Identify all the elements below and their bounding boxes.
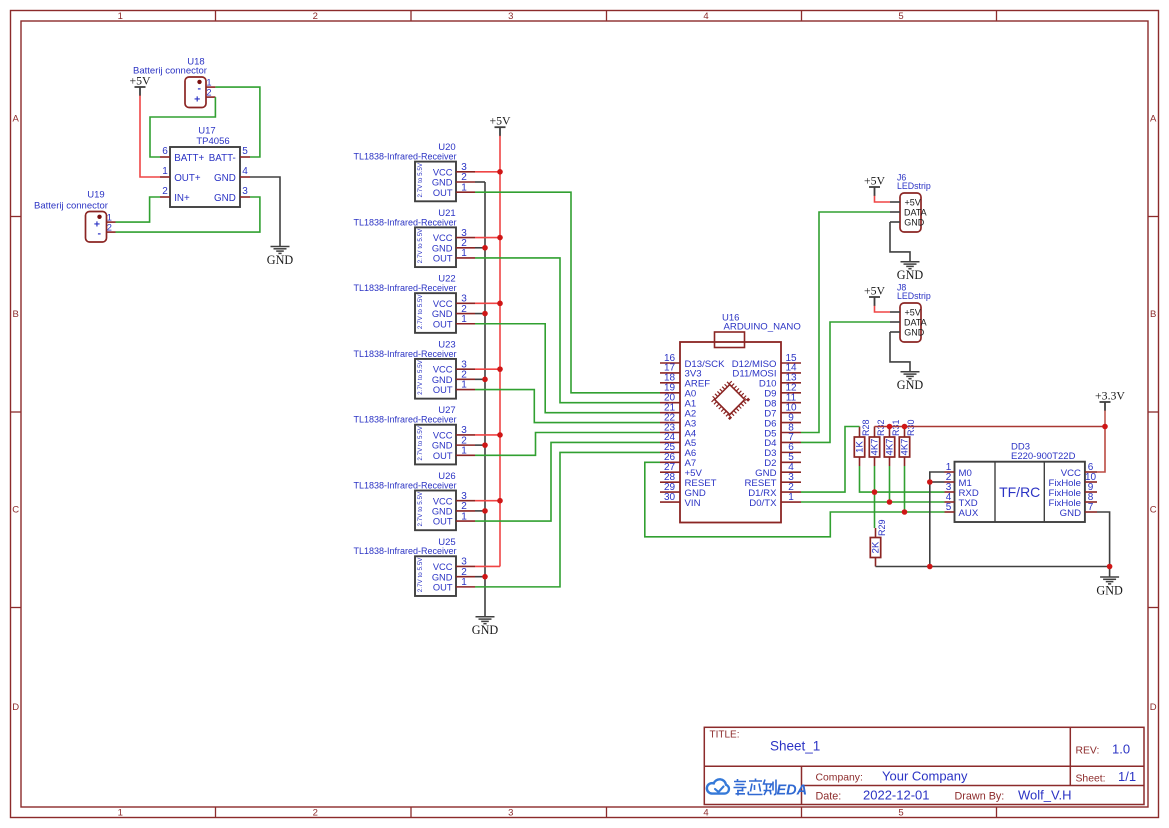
U26 pin 1 OUT: [456, 520, 475, 522]
svg-text:B: B: [13, 309, 19, 320]
svg-text:4K7: 4K7: [885, 439, 896, 456]
svg-text:5: 5: [898, 808, 903, 819]
svg-text:OUT: OUT: [433, 188, 453, 198]
wire DD3 M0/M1 to GND bus: [930, 472, 945, 567]
wire U18 pin1 to U17 BATT-: [215, 87, 260, 157]
U25 pin 1 OUT: [456, 586, 475, 588]
svg-text:Batterij connector: Batterij connector: [34, 201, 108, 212]
U16 pin 29 GND: [660, 491, 680, 493]
wire U22 GND to GND bus: [475, 313, 485, 315]
svg-text:GND: GND: [432, 243, 453, 253]
DD3 pin 2 M1: [945, 481, 955, 483]
wire +5V to J8: [875, 306, 891, 312]
svg-text:1: 1: [118, 808, 123, 819]
U16 pin 7 D4: [781, 441, 801, 443]
junction +5V bus: [497, 366, 503, 372]
U20 pin 3 VCC: [456, 171, 475, 173]
junction +5V bus: [497, 301, 503, 307]
U16 pin 9 D6: [781, 422, 801, 424]
svg-text:U17: U17: [198, 126, 215, 137]
wire U21 VCC to +5V bus: [475, 237, 500, 239]
svg-text:+: +: [194, 93, 200, 105]
svg-text:REV:: REV:: [1076, 746, 1100, 757]
logo JLC EDA: [707, 779, 729, 793]
junction GND bus: [927, 564, 933, 570]
wire GND bus (right): [876, 566, 1110, 568]
IR receiver U27: [415, 425, 456, 465]
U22 pin 3 VCC: [456, 302, 475, 304]
wire U19 pin2 to U17 GND3: [116, 197, 260, 232]
U16 pin 8 D5: [781, 432, 801, 434]
svg-text:ARDUINO_NANO: ARDUINO_NANO: [724, 322, 801, 333]
svg-text:GND: GND: [1096, 583, 1123, 597]
svg-text:LEDstrip: LEDstrip: [897, 181, 931, 191]
svg-text:TL1838-Infrared-Receiver: TL1838-Infrared-Receiver: [353, 152, 456, 162]
svg-text:1: 1: [461, 446, 467, 457]
wire U27 GND to GND bus: [475, 444, 485, 446]
junction +5V bus: [497, 169, 503, 175]
svg-text:3: 3: [508, 808, 513, 819]
resistor R28 1K: [859, 427, 861, 438]
wire U26 OUT to U16: [475, 442, 660, 521]
wire +3.3V bus: [875, 426, 1106, 428]
wire U23 GND to GND bus: [475, 378, 485, 380]
DD3 pin 6 VCC: [1085, 471, 1097, 473]
svg-text:R32: R32: [876, 419, 886, 436]
U27 pin 3 VCC: [456, 434, 475, 436]
svg-text:2: 2: [313, 808, 318, 819]
wire U23 OUT to U16: [475, 390, 660, 423]
U16 pin 13 D10: [781, 382, 801, 384]
U21 pin 2 GND: [456, 247, 475, 249]
wire J6 DATA to U16 D5: [801, 212, 890, 433]
U16 pin 18 AREF: [660, 382, 680, 384]
svg-text:BATT+: BATT+: [174, 153, 204, 164]
DD3 pin 8 FixHole: [1085, 501, 1097, 503]
svg-text:4K7: 4K7: [870, 439, 881, 456]
junction RXD: [872, 489, 878, 495]
U16 pin 21 A2: [660, 412, 680, 414]
IR receiver U23: [415, 359, 456, 399]
U19 pin 2: [107, 231, 116, 233]
svg-text:GND: GND: [904, 328, 925, 338]
svg-text:2.7V to 5.5V: 2.7V to 5.5V: [417, 359, 424, 394]
svg-text:A: A: [13, 114, 20, 125]
svg-text:Sheet_1: Sheet_1: [770, 739, 820, 754]
svg-text:+5V: +5V: [864, 284, 886, 298]
svg-text:OUT: OUT: [433, 319, 453, 329]
svg-text:TP4056: TP4056: [196, 136, 229, 147]
svg-text:GND: GND: [214, 173, 236, 184]
svg-text:TL1838-Infrared-Receiver: TL1838-Infrared-Receiver: [353, 217, 456, 227]
ground (J8): [901, 371, 920, 373]
U22 pin 1 OUT: [456, 323, 475, 325]
svg-text:2.7V to 5.5V: 2.7V to 5.5V: [417, 425, 424, 460]
svg-text:TL1838-Infrared-Receiver: TL1838-Infrared-Receiver: [353, 283, 456, 293]
wire U20 VCC to +5V bus: [475, 171, 500, 173]
DD3 pin 9 FixHole: [1085, 491, 1097, 493]
svg-text:6: 6: [162, 146, 168, 157]
svg-text:OUT: OUT: [433, 254, 453, 264]
svg-text:3: 3: [508, 11, 513, 22]
DD3 pin 4 TXD: [945, 501, 955, 503]
wire U26 GND to GND bus: [475, 510, 485, 512]
svg-text:DATA: DATA: [904, 318, 927, 328]
IR receiver U26: [415, 491, 456, 531]
svg-text:GND: GND: [432, 572, 453, 582]
U16 pin 27 +5V: [660, 471, 680, 473]
wire +5V to J6: [875, 196, 891, 202]
svg-text:2.7V to 5.5V: 2.7V to 5.5V: [417, 162, 424, 197]
svg-text:DATA: DATA: [904, 208, 927, 218]
U17 pin 6 BATT+: [160, 156, 170, 158]
svg-text:1: 1: [461, 577, 467, 588]
svg-text:5: 5: [242, 146, 248, 157]
svg-text:TL1838-Infrared-Receiver: TL1838-Infrared-Receiver: [353, 415, 456, 425]
svg-text:1: 1: [461, 380, 467, 391]
svg-text:1.0: 1.0: [1112, 742, 1130, 757]
svg-text:C: C: [12, 505, 19, 516]
svg-text:+5V: +5V: [864, 174, 886, 188]
svg-text:OUT: OUT: [433, 385, 453, 395]
svg-text:OUT: OUT: [433, 451, 453, 461]
svg-text:GND: GND: [432, 375, 453, 385]
U23 pin 3 VCC: [456, 368, 475, 370]
svg-text:2: 2: [107, 222, 112, 232]
DD3 pin 10 FixHole: [1085, 481, 1097, 483]
J8 pin +5V: [890, 311, 900, 313]
DD3 pin 7 GND: [1085, 511, 1097, 513]
svg-text:Your Company: Your Company: [882, 768, 968, 783]
U23 pin 1 OUT: [456, 389, 475, 391]
U16 pin 23 A4: [660, 432, 680, 434]
U16 pin 26 A7: [660, 461, 680, 463]
wire U16 D0/TX to DD3 TXD: [801, 501, 945, 503]
IR receiver U21: [415, 227, 456, 267]
svg-text:OUT+: OUT+: [174, 173, 201, 184]
junction GND bus: [482, 574, 488, 580]
U16 pin 10 D7: [781, 412, 801, 414]
svg-text:VIN: VIN: [685, 498, 701, 509]
wire R31 bottom to TXD net: [889, 466, 891, 502]
wire U25 VCC to +5V bus: [475, 565, 500, 567]
U17 pin 3 GND: [240, 196, 250, 198]
module DD3 E220-900T22D: [955, 462, 1085, 522]
resistor R29 2K: [875, 528, 877, 538]
wire U23 VCC to +5V bus: [475, 368, 500, 370]
junction +3.3V: [1102, 424, 1108, 430]
svg-text:2: 2: [313, 11, 318, 22]
svg-text:VCC: VCC: [433, 496, 453, 506]
svg-text:+5V: +5V: [905, 308, 921, 318]
wire U22 VCC to +5V bus: [475, 302, 500, 304]
svg-text:GND: GND: [432, 441, 453, 451]
U21 pin 3 VCC: [456, 237, 475, 239]
svg-text:2022-12-01: 2022-12-01: [863, 787, 930, 802]
wire U21 OUT to U16: [475, 258, 660, 403]
wire +5V bus: [499, 136, 501, 567]
U16 pin 15 D12/MISO: [781, 362, 801, 364]
svg-text:R28: R28: [861, 419, 871, 436]
wire RXD net: [860, 466, 945, 492]
connector J8 LEDstrip: [900, 303, 921, 342]
wire DD3 GND7 to ground: [1097, 512, 1110, 577]
wire U16 A7 to DD3 AUX: [645, 462, 945, 537]
wire +5V to U17 OUT+: [140, 96, 160, 178]
resistor R31 4K7: [889, 427, 891, 438]
svg-text:R29: R29: [877, 519, 887, 536]
wire GND bus (receivers): [484, 182, 486, 617]
svg-text:2.7V to 5.5V: 2.7V to 5.5V: [417, 228, 424, 263]
svg-text:TL1838-Infrared-Receiver: TL1838-Infrared-Receiver: [353, 546, 456, 556]
junction GND bus: [482, 442, 488, 448]
junction GND bus: [482, 311, 488, 317]
U25 pin 3 VCC: [456, 565, 475, 567]
IR receiver U22: [415, 293, 456, 333]
svg-text:30: 30: [664, 492, 676, 503]
svg-text:2.7V to 5.5V: 2.7V to 5.5V: [417, 491, 424, 526]
svg-text:5: 5: [898, 11, 903, 22]
svg-text:VCC: VCC: [433, 562, 453, 572]
svg-text:U19: U19: [87, 190, 104, 201]
U16 pin 2 D1/RX: [781, 491, 801, 493]
U26 pin 2 GND: [456, 510, 475, 512]
wire U17 GND4 to ground: [250, 177, 280, 247]
svg-text:BATT-: BATT-: [209, 153, 236, 164]
wire R32 bottom to RXD net: [874, 466, 876, 492]
junction GND right: [1107, 564, 1113, 570]
U17 pin 2 IN+: [160, 196, 170, 198]
junction +5V bus: [497, 235, 503, 241]
J8 pin GND: [890, 331, 900, 333]
U18 pin 2: [206, 96, 215, 98]
svg-text:VCC: VCC: [433, 167, 453, 177]
IC U17 TP4056: [170, 147, 240, 207]
wire U21 GND to GND bus: [475, 247, 485, 249]
svg-text:1: 1: [206, 78, 211, 88]
connector J6 LEDstrip: [900, 193, 921, 232]
U16 pin 1 D0/TX: [781, 501, 801, 503]
svg-text:IN+: IN+: [174, 193, 190, 204]
svg-text:1/1: 1/1: [1118, 769, 1136, 784]
svg-text:Company:: Company:: [816, 773, 863, 784]
U16 pin 20 A1: [660, 402, 680, 404]
svg-text:2.7V to 5.5V: 2.7V to 5.5V: [417, 294, 424, 329]
J6 pin +5V: [890, 201, 900, 203]
wire U19 pin1 to U17 IN+: [116, 197, 161, 222]
U27 pin 2 GND: [456, 444, 475, 446]
svg-text:2: 2: [162, 186, 168, 197]
svg-text:Date:: Date:: [816, 791, 842, 803]
ground (receivers): [476, 616, 495, 618]
U20 pin 2 GND: [456, 181, 475, 183]
svg-text:4: 4: [703, 11, 708, 22]
connector U19: [86, 212, 107, 243]
svg-text:TITLE:: TITLE:: [710, 730, 740, 741]
svg-text:R31: R31: [891, 419, 901, 436]
U16 pin 22 A3: [660, 422, 680, 424]
U26 pin 3 VCC: [456, 500, 475, 502]
U16 pin 28 RESET: [660, 481, 680, 483]
IR receiver U25: [415, 556, 456, 596]
svg-text:Batterij connector: Batterij connector: [133, 66, 207, 77]
J6 pin DATA: [890, 211, 900, 213]
wire U27 OUT to U16: [475, 433, 660, 456]
U21 pin 1 OUT: [456, 257, 475, 259]
wire R29 top to RXD net: [874, 492, 876, 528]
svg-text:D0/TX: D0/TX: [749, 498, 777, 509]
svg-text:4: 4: [703, 808, 708, 819]
svg-text:R30: R30: [906, 419, 916, 436]
svg-text:+3.3V: +3.3V: [1095, 389, 1125, 403]
svg-text:+5V: +5V: [905, 198, 921, 208]
svg-text:+5V: +5V: [489, 114, 511, 128]
svg-text:D: D: [12, 702, 19, 713]
svg-text:1: 1: [461, 314, 467, 325]
svg-text:3: 3: [242, 186, 248, 197]
svg-text:B: B: [1150, 309, 1156, 320]
junction R31 top: [887, 424, 893, 430]
U23 pin 2 GND: [456, 378, 475, 380]
wire U27 VCC to +5V bus: [475, 434, 500, 436]
svg-text:A: A: [1150, 114, 1157, 125]
resistor R30 4K7: [904, 427, 906, 438]
U16 pin 4 GND: [781, 471, 801, 473]
wire U26 VCC to +5V bus: [475, 500, 500, 502]
ground (U17): [271, 246, 290, 248]
wire U25 OUT to U16: [475, 452, 660, 586]
junction R30 top: [902, 424, 908, 430]
svg-text:D: D: [1150, 702, 1157, 713]
svg-text:1: 1: [788, 492, 794, 503]
junction GND bus: [482, 245, 488, 251]
wire J6 GND to ground: [890, 222, 910, 262]
svg-text:7: 7: [1088, 502, 1094, 513]
ground (J6): [901, 261, 920, 263]
IC U16 ARDUINO_NANO: [680, 342, 781, 523]
DD3 pin 1 M0: [945, 471, 955, 473]
svg-text:GND: GND: [897, 378, 924, 392]
U16 pin 11 D8: [781, 402, 801, 404]
svg-text:Wolf_V.H: Wolf_V.H: [1018, 787, 1071, 802]
U16 pin 30 VIN: [660, 501, 680, 503]
svg-text:OUT: OUT: [433, 582, 453, 592]
svg-text:5: 5: [946, 502, 952, 513]
wire U20 GND to GND bus: [475, 181, 485, 183]
junction TXD: [887, 499, 893, 505]
junction GND bus: [482, 508, 488, 514]
svg-text:GND: GND: [472, 623, 499, 637]
wire U20 OUT to U16: [475, 192, 660, 393]
U25 pin 2 GND: [456, 576, 475, 578]
svg-text:GND: GND: [432, 309, 453, 319]
svg-text:4K7: 4K7: [900, 439, 911, 456]
svg-text:Drawn By:: Drawn By:: [955, 791, 1005, 803]
svg-text:-: -: [97, 227, 101, 239]
U22 pin 2 GND: [456, 313, 475, 315]
U20 pin 1 OUT: [456, 191, 475, 193]
resistor R32 4K7: [874, 427, 876, 438]
DD3 pin 5 AUX: [945, 511, 955, 513]
U17 pin 4 GND: [240, 176, 250, 178]
wire U16 D1/RX to R28 top: [801, 427, 860, 493]
U16 pin 25 A6: [660, 451, 680, 453]
U16 pin 6 D3: [781, 451, 801, 453]
U16 pin 19 A0: [660, 392, 680, 394]
svg-text:OUT: OUT: [433, 517, 453, 527]
wire J8 DATA to U16 D4: [801, 322, 890, 442]
svg-text:TL1838-Infrared-Receiver: TL1838-Infrared-Receiver: [353, 480, 456, 490]
title block: [704, 727, 1144, 804]
U16 pin 17 3V3: [660, 372, 680, 374]
wire U18 pin2 to U17 BATT+: [150, 97, 215, 157]
junction +5V bus: [497, 498, 503, 504]
wire U25 GND to GND bus: [475, 576, 485, 578]
svg-text:C: C: [1150, 505, 1157, 516]
IR receiver U20: [415, 162, 456, 202]
U16 pin 24 A5: [660, 441, 680, 443]
svg-text:2: 2: [206, 87, 211, 97]
svg-text:GND: GND: [897, 268, 924, 282]
wire R30 bottom to AUX net: [904, 466, 906, 512]
U27 pin 1 OUT: [456, 454, 475, 456]
svg-text:VCC: VCC: [433, 233, 453, 243]
U16 pin 16 D13/SCK: [660, 362, 680, 364]
U19 pin 1: [107, 221, 116, 223]
svg-text:1: 1: [118, 11, 123, 22]
U16 pin 3 RESET: [781, 481, 801, 483]
U16 pin 14 D11/MOSI: [781, 372, 801, 374]
svg-text:1K: 1K: [855, 441, 866, 453]
svg-text:E220-900T22D: E220-900T22D: [1011, 451, 1076, 462]
svg-text:2K: 2K: [871, 541, 882, 553]
svg-text:LEDstrip: LEDstrip: [897, 291, 931, 301]
svg-text:Sheet:: Sheet:: [1076, 774, 1106, 785]
wire +3.3V to DD3 VCC: [1097, 427, 1105, 473]
svg-text:TL1838-Infrared-Receiver: TL1838-Infrared-Receiver: [353, 349, 456, 359]
svg-text:GND: GND: [432, 178, 453, 188]
svg-text:GND: GND: [214, 193, 236, 204]
U17 pin 1 OUT+: [160, 176, 170, 178]
U16 pin 5 D2: [781, 461, 801, 463]
wire U22 OUT to U16: [475, 324, 660, 413]
svg-text:1: 1: [461, 182, 467, 193]
U18 pin 1: [206, 86, 215, 88]
junction GND bus: [482, 377, 488, 383]
junction AUX: [902, 509, 908, 515]
svg-text:VCC: VCC: [433, 299, 453, 309]
svg-text:GND: GND: [267, 253, 294, 267]
svg-text:TF/RC: TF/RC: [999, 484, 1040, 500]
svg-text:2.7V to 5.5V: 2.7V to 5.5V: [417, 557, 424, 592]
J8 pin DATA: [890, 321, 900, 323]
svg-text:1: 1: [461, 248, 467, 259]
svg-text:EDA: EDA: [777, 783, 808, 799]
ground (DD3): [1100, 576, 1119, 578]
U16 pin 12 D9: [781, 392, 801, 394]
DD3 pin 3 RXD: [945, 491, 955, 493]
svg-text:VCC: VCC: [433, 431, 453, 441]
svg-text:GND: GND: [1060, 508, 1081, 519]
svg-text:1: 1: [461, 511, 467, 522]
svg-text:1: 1: [162, 166, 168, 177]
svg-text:GND: GND: [432, 507, 453, 517]
svg-text:GND: GND: [904, 218, 925, 228]
svg-text:AUX: AUX: [959, 508, 979, 519]
wire J8 GND to ground: [890, 332, 910, 372]
junction M1: [927, 479, 933, 485]
J6 pin GND: [890, 221, 900, 223]
